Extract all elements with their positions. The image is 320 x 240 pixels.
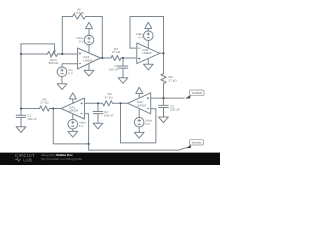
wire: R3 to OA1 + input bbox=[85, 102, 103, 104]
svg-text:LM324: LM324 bbox=[137, 103, 147, 107]
svg-text:LM324: LM324 bbox=[142, 51, 152, 55]
wire: OA3 feedback loop bbox=[130, 17, 164, 54]
op-amp OA2 supply stem bbox=[138, 109, 140, 118]
wire: OA1 - input stub down to Vout wire bbox=[85, 114, 89, 150]
ground below C4 bbox=[118, 78, 128, 84]
svg-text:1.0 MΩ: 1.0 MΩ bbox=[74, 11, 85, 15]
Vdd+ net flag arrow above OA2 bbox=[136, 87, 143, 98]
op-amp OA1 supply stem bbox=[72, 114, 74, 120]
wire: OA2 + input to flag bbox=[151, 97, 185, 99]
ground below OA1 source bbox=[68, 129, 78, 137]
Vdd+ net flag arrow above OA1 bbox=[69, 93, 76, 104]
wire: Rf right to output rail bbox=[86, 17, 103, 59]
capacitor C4 100nF bbox=[118, 58, 128, 78]
op-amp OA3 supply stem bbox=[147, 41, 149, 49]
op-amp OA4 triangle bbox=[78, 48, 101, 69]
resistor R6 27k vertical bbox=[161, 74, 166, 84]
wire: rail to R5 bbox=[21, 108, 40, 110]
wire: OA3 output junction bbox=[160, 52, 164, 54]
svg-text:LM324: LM324 bbox=[69, 109, 79, 113]
resistor Rf 1.0 MΩ bbox=[73, 14, 86, 19]
watermark bar bbox=[0, 153, 220, 165]
svg-text:27 kΩ: 27 kΩ bbox=[40, 101, 49, 105]
voltage source Vin bbox=[57, 67, 67, 77]
resistor R3 27k bbox=[103, 101, 113, 106]
svg-text:27 kΩ: 27 kΩ bbox=[169, 78, 178, 82]
svg-text:VoutOsc: VoutOsc bbox=[192, 141, 203, 145]
wire: R6 to OA2 + node bbox=[163, 84, 165, 99]
resistor R4 27k bbox=[111, 55, 121, 60]
wire: R4 to OA3 + input bbox=[121, 57, 137, 59]
wire: OA2 output bbox=[113, 102, 128, 104]
junction dots bbox=[20, 52, 165, 145]
svg-text:100 nF: 100 nF bbox=[109, 67, 119, 71]
ground below Vin bbox=[57, 77, 67, 90]
wire: OA3 source to flag bbox=[147, 29, 149, 31]
plus/minus input glyphs bbox=[79, 48, 149, 114]
potentiometer wiper arrow bbox=[51, 51, 56, 58]
svg-text:VoutBuff: VoutBuff bbox=[192, 91, 202, 95]
wire: R6 rail bbox=[163, 53, 165, 73]
ground below OA4 bbox=[84, 64, 94, 76]
ground below C2 bbox=[93, 123, 103, 129]
voltage source V OA3 Vdd+ bbox=[144, 31, 154, 41]
svg-text:100 nF: 100 nF bbox=[170, 108, 180, 112]
wire: left rail vertical bbox=[20, 44, 22, 115]
wire: Rf feedback vertical left bbox=[62, 17, 72, 55]
wire: Vin to OA4 - input bbox=[62, 64, 78, 67]
voltage source V OA4 Vdd+ bbox=[84, 35, 94, 45]
op-amp OA1 triangle (mirrored) bbox=[61, 98, 85, 119]
wire: R5 to OA1 output bbox=[50, 108, 62, 110]
Vdd+ net flag arrow above OA4 bbox=[86, 22, 93, 28]
capacitor C2 100nF bbox=[93, 103, 103, 123]
voltage source V OA2 bbox=[134, 117, 144, 127]
op-amp OA4 supply stem bbox=[88, 45, 90, 53]
svg-text:http​://circuitlab.com/c86cgj7: http​://circuitlab.com/c86cgj7pc8w bbox=[41, 157, 83, 161]
svg-text:LM324: LM324 bbox=[83, 59, 93, 63]
op-amp OA3 triangle bbox=[137, 43, 160, 64]
wire: OA2 - feedback loop bbox=[121, 103, 156, 143]
resistor R5 27k bbox=[40, 106, 50, 111]
ground below C3 bbox=[159, 117, 169, 123]
ground below C1 bbox=[16, 127, 26, 133]
svg-text:LAB: LAB bbox=[23, 157, 32, 162]
svg-text:100 nF: 100 nF bbox=[104, 113, 114, 117]
voltage source V OA1 bbox=[68, 119, 78, 129]
wire: bottom Vout run to flag bbox=[89, 148, 186, 150]
op-amp OA2 triangle (mirrored) bbox=[128, 93, 151, 114]
svg-text:100 nF: 100 nF bbox=[27, 117, 37, 121]
wire: OA1 feedback box bbox=[53, 109, 88, 144]
wire: OA4 output to R4 bbox=[101, 57, 112, 59]
wire: Rpot to OA4 + input bbox=[58, 53, 78, 55]
svg-text:27 kΩ: 27 kΩ bbox=[112, 50, 121, 54]
resistor Rpot 500k (potentiometer) bbox=[48, 51, 58, 56]
svg-text:500 kΩ: 500 kΩ bbox=[48, 61, 59, 65]
svg-text:27 kΩ: 27 kΩ bbox=[105, 95, 114, 99]
capacitor C3 100nF bbox=[159, 98, 169, 117]
ground below OA2 source bbox=[134, 127, 144, 138]
wire: Rpot left lead bbox=[21, 53, 48, 55]
wire: wiper staple top bbox=[21, 44, 55, 50]
Vdd+ net flag arrow above OA3 bbox=[145, 22, 152, 28]
wire: source to Vdd flag bbox=[88, 29, 90, 36]
capacitor C1 100nF bbox=[16, 109, 26, 127]
node flag VoutBuff (top right) bbox=[185, 95, 190, 99]
ground below OA3 bbox=[143, 59, 153, 70]
node flag VoutOsc (bottom right) bbox=[186, 145, 191, 149]
